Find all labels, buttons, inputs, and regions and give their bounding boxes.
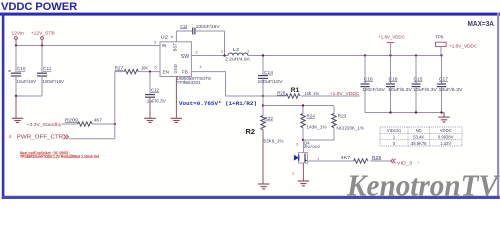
wire EN vertical bbox=[114, 72, 116, 139]
svg-text:C12: C12 bbox=[151, 87, 160, 92]
capacitor C18 bbox=[386, 56, 412, 113]
svg-text:R29: R29 bbox=[372, 155, 382, 160]
bootstrap capacitor C13 bbox=[176, 24, 224, 56]
resistor R23 bbox=[332, 106, 364, 141]
junction SW/BST bbox=[223, 54, 225, 56]
ground C12 bbox=[144, 118, 155, 122]
pin stub +12V_STB bbox=[41, 39, 43, 45]
svg-text:TP8: TP8 bbox=[435, 34, 444, 39]
svg-text:PWR_OFF_CTR: PWR_OFF_CTR bbox=[17, 135, 63, 141]
junction cap bottom C15 bbox=[415, 111, 417, 113]
resistor R26 bbox=[277, 91, 319, 99]
junction rail TP8/C17 bbox=[440, 54, 442, 56]
wire gate to R29 bbox=[307, 160, 353, 162]
svg-text:2N7002: 2N7002 bbox=[304, 144, 321, 149]
border frame right bbox=[497, 13, 499, 199]
svg-text:100nF/16V: 100nF/16V bbox=[362, 87, 385, 92]
border frame top bbox=[0, 13, 500, 16]
capacitor C11 bbox=[37, 46, 65, 97]
wire Q4 source to ground bbox=[302, 163, 304, 181]
svg-text:1.32V: 1.32V bbox=[440, 141, 451, 146]
svg-text:143K_1%: 143K_1% bbox=[307, 125, 327, 130]
svg-text:4: 4 bbox=[9, 134, 12, 139]
svg-text:R1: R1 bbox=[291, 87, 300, 94]
ground capacitor bank bbox=[438, 113, 449, 123]
svg-text:4K7: 4K7 bbox=[341, 155, 351, 160]
resistor R22 bbox=[261, 116, 284, 144]
svg-text:R22: R22 bbox=[265, 116, 274, 121]
svg-text:4K7: 4K7 bbox=[94, 118, 103, 123]
svg-text:L2: L2 bbox=[233, 47, 240, 52]
svg-text:1uF/6.3V: 1uF/6.3V bbox=[147, 99, 167, 104]
svg-text:1: 1 bbox=[184, 80, 186, 84]
svg-text:VID_3: VID_3 bbox=[397, 160, 413, 165]
svg-text:3: 3 bbox=[296, 142, 298, 146]
svg-text:C13: C13 bbox=[180, 24, 187, 29]
border frame left bbox=[2, 13, 5, 199]
svg-text:*: * bbox=[418, 162, 420, 166]
svg-text:NC: NC bbox=[416, 128, 422, 133]
svg-text:+1.8V_VDDC: +1.8V_VDDC bbox=[378, 34, 405, 39]
junction C10 bottom bbox=[15, 95, 17, 97]
svg-text:+3.3V_Standby: +3.3V_Standby bbox=[27, 122, 63, 127]
capacitor C16 bbox=[361, 56, 386, 113]
svg-text:53K6_1%: 53K6_1% bbox=[264, 138, 284, 143]
svg-text:R26: R26 bbox=[277, 91, 286, 96]
node 12Vin connector circle bbox=[15, 37, 18, 40]
svg-text:2: 2 bbox=[292, 172, 294, 176]
wire R209 to EN vertical bbox=[92, 123, 114, 125]
wire FB to divider bbox=[191, 72, 285, 96]
svg-text:1: 1 bbox=[317, 157, 319, 161]
resistor R27 bbox=[115, 66, 160, 74]
ground Q4 bbox=[298, 181, 309, 186]
port PWR_OFF_CTR bbox=[9, 134, 69, 140]
svg-text:VDDC: VDDC bbox=[440, 128, 452, 133]
svg-text:MAX=3A: MAX=3A bbox=[468, 19, 495, 28]
border frame bottom bbox=[2, 196, 500, 199]
resistor R209 bbox=[65, 118, 103, 127]
svg-text:C10: C10 bbox=[17, 66, 26, 71]
svg-text:13K_1%: 13K_1% bbox=[305, 91, 320, 96]
junction C14 top bbox=[262, 54, 264, 56]
svg-text:TPS56REGset/TOD0:1.2V Rsmall/R: TPS56REGset/TOD0:1.2V Rsmall/REat 2.10mA… bbox=[20, 154, 99, 159]
wire U2 GND pin to ground bbox=[175, 77, 177, 119]
svg-text:C15: C15 bbox=[414, 76, 423, 81]
wire capacitor bank bottom bbox=[365, 112, 444, 114]
junction input C11 bbox=[41, 44, 43, 46]
VID table bbox=[380, 127, 462, 146]
svg-text:NC(220K_1%: NC(220K_1% bbox=[337, 125, 365, 130]
wire SW output bbox=[191, 55, 228, 57]
capacitor C15 bbox=[412, 56, 438, 113]
svg-text:100nF/16V: 100nF/16V bbox=[43, 79, 65, 84]
svg-text:TPS563201: TPS563201 bbox=[177, 80, 202, 85]
svg-text:2.2uH/4.9A: 2.2uH/4.9A bbox=[225, 57, 251, 62]
node +12V_STB connector circle bbox=[41, 37, 44, 40]
wire R22 top segment bbox=[262, 96, 264, 116]
resistor R29 bbox=[341, 155, 382, 163]
svg-text:VID1S1: VID1S1 bbox=[387, 128, 402, 133]
ground input bbox=[12, 118, 23, 122]
svg-text:38.9K78: 38.9K78 bbox=[411, 141, 427, 146]
wire to ground left bbox=[15, 96, 17, 118]
svg-text:KenotronTV: KenotronTV bbox=[346, 168, 500, 200]
junction rail C18/power bbox=[389, 54, 391, 56]
junction divider branch bbox=[262, 104, 264, 106]
svg-text:R209: R209 bbox=[65, 118, 79, 123]
svg-text:BST: BST bbox=[173, 43, 178, 52]
svg-text:C18: C18 bbox=[389, 76, 398, 81]
svg-text:Vout=0.765V* (1+R1/R2): Vout=0.765V* (1+R1/R2) bbox=[179, 100, 257, 107]
junction drain bbox=[302, 139, 304, 141]
svg-text:5: 5 bbox=[155, 66, 157, 70]
svg-text:2: 2 bbox=[196, 50, 198, 54]
wire input rail to IC IN bbox=[16, 45, 160, 47]
junction rail C15 bbox=[415, 54, 417, 56]
wire C10-C11 bottom link bbox=[16, 95, 42, 97]
junction R209/EN vertical bbox=[114, 123, 116, 125]
inductor L2 bbox=[225, 47, 251, 61]
svg-text:C11: C11 bbox=[43, 66, 52, 71]
svg-text:EN: EN bbox=[163, 69, 169, 74]
capacitor C14 bbox=[258, 56, 284, 97]
svg-text:C14: C14 bbox=[264, 70, 273, 75]
svg-text:3: 3 bbox=[154, 41, 156, 45]
junction cap bottom C17 bbox=[440, 111, 442, 113]
svg-text:R2: R2 bbox=[246, 127, 255, 136]
svg-text:2: 2 bbox=[221, 50, 223, 54]
capacitor C10 bbox=[9, 46, 37, 97]
junction rail C16 bbox=[364, 54, 366, 56]
svg-text:6: 6 bbox=[171, 35, 173, 39]
capacitor C12 bbox=[145, 72, 167, 118]
svg-text:12Vin: 12Vin bbox=[12, 31, 25, 36]
wire drain bbox=[302, 140, 304, 153]
svg-text:10uF/6.3V: 10uF/6.3V bbox=[413, 87, 437, 92]
svg-text:+12V_STB: +12V_STB bbox=[31, 31, 55, 36]
ground R22 bbox=[258, 184, 269, 189]
svg-text:100uF/10V: 100uF/10V bbox=[258, 79, 284, 84]
ground U2 bbox=[171, 118, 182, 122]
svg-text:C17: C17 bbox=[439, 76, 448, 81]
wire R29 to port bbox=[370, 160, 390, 162]
svg-text:GND: GND bbox=[173, 64, 178, 73]
svg-text:10uF/6.3V: 10uF/6.3V bbox=[388, 87, 412, 92]
op-amp U2 regulator body bbox=[160, 35, 191, 77]
svg-text:10uF/6.3V: 10uF/6.3V bbox=[439, 87, 463, 92]
junction cap bottom C18 bbox=[389, 111, 391, 113]
svg-text:+1.8V_VDDC: +1.8V_VDDC bbox=[449, 43, 478, 48]
pin stub 12Vin bbox=[15, 39, 17, 45]
svg-text:R23: R23 bbox=[338, 114, 347, 119]
junction EN/C12 bbox=[149, 70, 151, 72]
svg-text:C16: C16 bbox=[364, 76, 373, 81]
svg-text:4: 4 bbox=[200, 65, 202, 69]
test point TP8 bbox=[435, 34, 478, 55]
svg-text:0.9938V: 0.9938V bbox=[438, 135, 454, 140]
svg-text:R27: R27 bbox=[115, 66, 124, 71]
port VID_3 bbox=[391, 159, 420, 166]
svg-text:+1.8V_VDDC: +1.8V_VDDC bbox=[330, 91, 360, 96]
svg-text:FB: FB bbox=[182, 69, 188, 74]
resistor R24 bbox=[301, 106, 327, 141]
wire output rail bbox=[248, 55, 442, 57]
svg-text:1: 1 bbox=[247, 50, 249, 54]
svg-text:VDDC POWER: VDDC POWER bbox=[1, 1, 77, 13]
junction R24 top bbox=[302, 104, 304, 106]
power bar symbol bbox=[387, 42, 394, 44]
junction C14/FB line bbox=[262, 95, 264, 97]
svg-text:10uF/16V: 10uF/16V bbox=[17, 79, 37, 84]
wire R24/R23 bottom link bbox=[303, 139, 334, 141]
wire R26 to net label bbox=[301, 95, 359, 97]
wire standby to R209 bbox=[62, 123, 78, 125]
junction input left bbox=[15, 44, 17, 46]
svg-text:0: 0 bbox=[393, 141, 396, 146]
svg-text:100nF/16V: 100nF/16V bbox=[196, 24, 221, 29]
svg-text:10K: 10K bbox=[141, 66, 149, 71]
transistor Q4 bbox=[292, 140, 321, 176]
svg-text:R24: R24 bbox=[307, 114, 316, 119]
svg-text:IN: IN bbox=[162, 43, 167, 48]
wire PWR_OFF_CTR bbox=[69, 138, 115, 140]
svg-text:U2: U2 bbox=[161, 35, 169, 40]
svg-text:53.4K: 53.4K bbox=[413, 135, 424, 140]
capacitor C17 bbox=[437, 56, 463, 113]
svg-text:1: 1 bbox=[393, 135, 396, 140]
wire branch to R24 R23 bbox=[263, 105, 334, 107]
svg-text:SW: SW bbox=[181, 54, 189, 60]
wire R22 to ground bbox=[262, 130, 264, 184]
